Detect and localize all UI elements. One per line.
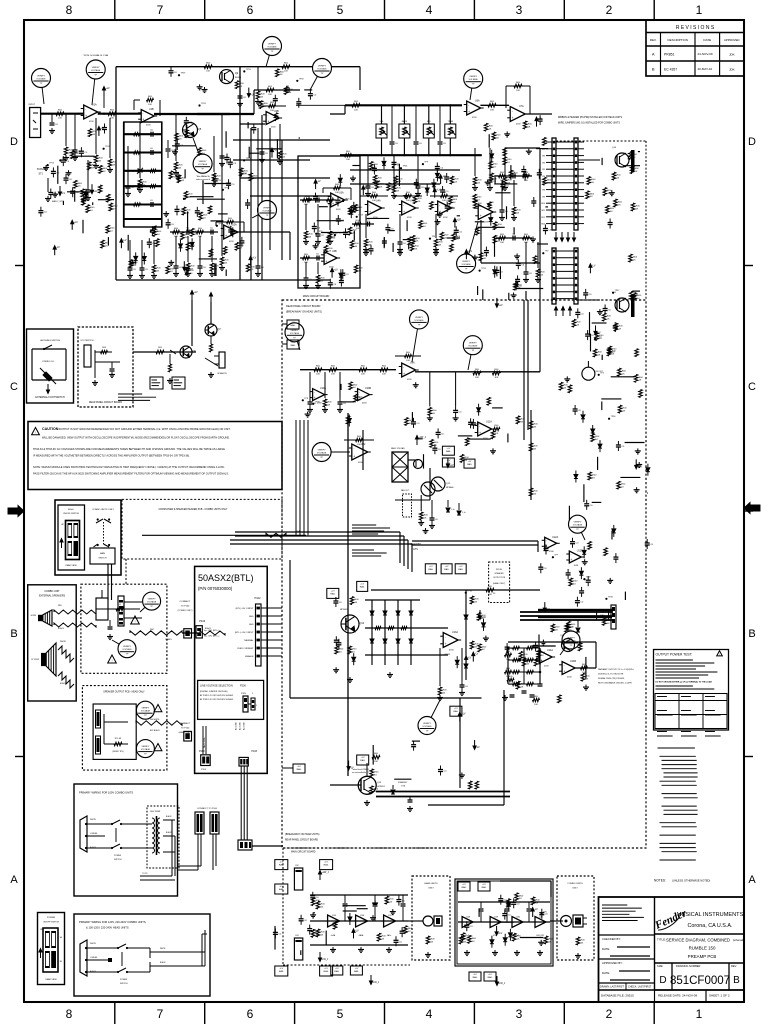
resistor R89 [354,204,358,212]
svg-text:-: - [403,203,404,207]
svg-text:-LV: -LV [592,264,596,267]
svg-text:(BREAKAWAY ON HEAD UNITS): (BREAKAWAY ON HEAD UNITS) [286,311,322,314]
svg-text:+LV: +LV [100,127,105,130]
svg-text:Corona, CA U.S.A.: Corona, CA U.S.A. [688,923,733,929]
svg-text:-LV: -LV [534,908,538,911]
svg-text:JDK: JDK [729,68,735,72]
balloon TP relay [427,700,440,726]
capacitor C45 [48,192,53,194]
capacitor C24 [64,177,69,179]
power arrow [440,178,442,184]
capacitor C14 [299,918,304,920]
wire [317,220,344,222]
svg-text:-LW_J: -LW_J [322,958,330,961]
svg-text:OUTPUT POWER TEST:: OUTPUT POWER TEST: [656,653,693,657]
right mid cluster [473,371,481,375]
wire [406,220,408,231]
resistor R60 [259,101,263,109]
amp row 1 caps [343,903,348,905]
resistor R53 [635,349,639,357]
capacitor C43 [308,93,313,95]
svg-text:50ASX2(BTL): 50ASX2(BTL) [198,573,254,583]
resistor R58 [182,207,186,215]
svg-text:EXTERNAL SPEAKERS: EXTERNAL SPEAKERS [39,595,65,598]
svg-text:SERVICE DIAGRAM, COMBINED: SERVICE DIAGRAM, COMBINED [666,938,730,943]
capacitor C35 [334,639,339,641]
svg-text:CONNECT: CONNECT [180,723,191,725]
U6A out [480,104,509,106]
capacitor C70 [468,421,473,423]
capacitor C66 [575,311,580,313]
ground [513,293,515,296]
ground [487,180,489,183]
svg-text:MPSA13: MPSA13 [340,608,349,611]
wire [403,239,412,241]
resistor R83 [249,173,253,181]
mid band drops [309,372,311,398]
svg-text:2: 2 [606,3,613,17]
resistor R85 [477,612,481,620]
resistor R82 [408,237,412,245]
capacitor C30 [613,325,618,327]
svg-text:BLACK: BLACK [166,815,172,818]
wire [202,180,204,204]
svg-text:10K: 10K [494,377,498,379]
resistor R58 [375,181,379,189]
svg-text:U7A: U7A [519,105,524,108]
eq outer box left [115,67,117,280]
wire [611,376,635,378]
svg-text:VOLTAGE: VOLTAGE [91,69,101,72]
mute transistor [205,324,217,336]
node [222,189,224,191]
capacitor C93 [61,159,66,161]
svg-text:+LV: +LV [324,968,328,970]
svg-text:U11A: U11A [486,421,492,424]
amp row 2 grounds [466,950,468,953]
svg-text:RAIL: RAIL [279,888,285,891]
capacitor C29 [372,168,377,170]
node [542,252,544,254]
primary wiring 100V box [74,784,178,896]
rgl on-off switch inner box [58,505,85,570]
capacitor C76 [436,431,441,433]
capacitor C33 [484,250,489,252]
capacitor C55 [230,230,235,232]
capacitor C28 [500,184,505,186]
wire [638,151,640,153]
svg-text:STEREO 1/4: STEREO 1/4 [42,361,54,363]
50ASX2 module box [195,566,268,773]
resistor R68 [311,898,315,906]
svg-text:+LV: +LV [291,342,295,344]
ground [308,196,310,199]
resistor R87 [514,282,518,290]
combo speaker plug [561,916,572,927]
svg-text:W11: W11 [541,210,545,212]
svg-text:W1: W1 [542,142,545,144]
resistor R51 [186,243,190,251]
svg-text:8: 8 [66,3,73,17]
svg-text:GND: GND [249,616,254,618]
capacitor C55 [336,199,341,201]
svg-text:+LV: +LV [106,87,111,90]
channel pots [380,104,382,106]
resistor R63 [468,781,472,789]
lower right mid cluster [496,175,532,177]
resistor R5 drop [109,118,111,158]
rear panel circuit board box [78,327,133,407]
diode matrix [371,600,373,665]
svg-text:-: - [142,111,143,115]
resistor R45 [246,264,250,272]
mid stage op-amp U2A [224,225,238,239]
supply bus lines [520,611,613,613]
svg-text:LINE VOLTAGE SELECTION:: LINE VOLTAGE SELECTION: [200,685,234,688]
resistor R60 [385,896,389,904]
cap C3 drop [87,160,89,186]
svg-text:*WITH 1k SIGNAL IN 1 TAB: *WITH 1k SIGNAL IN 1 TAB [83,54,109,57]
mixer drops [367,155,369,182]
svg-text:P102: P102 [255,596,262,600]
diode D9 [489,218,493,222]
svg-text:+: + [445,642,447,646]
ground [405,193,407,196]
amp row 1 triangles [328,915,340,927]
wire [497,921,514,923]
svg-text:RIBBON & HEADER (P9-P99) INSTA: RIBBON & HEADER (P9-P99) INSTALLED FOR H… [558,116,622,119]
svg-text:ONLY: ONLY [572,888,578,890]
node [594,338,596,340]
op-amp U10A [313,389,325,401]
capacitor C84 [505,646,510,648]
wire [250,152,260,154]
resistor R83 [419,221,423,229]
capacitor C58 [414,182,419,184]
ground [437,219,439,222]
wire [72,155,95,157]
opto diodes [446,508,450,512]
svg-text:8: 8 [66,1007,73,1021]
node [312,403,314,405]
svg-text:THERMAL: THERMAL [244,639,255,642]
opto transistor Q12 [431,477,445,491]
resistor R54 [558,695,562,703]
wire [127,235,129,251]
capacitor C41 [440,189,445,191]
diode D3 [646,468,650,472]
op-amp U3A [331,193,345,207]
zone column ticks bottom [114,1002,116,1024]
svg-text:+LV: +LV [462,884,466,886]
svg-text:ONLY: ONLY [428,888,434,890]
svg-text:VERIFY: VERIFY [462,261,470,263]
svg-text:10K: 10K [475,377,479,379]
resistor R90 [223,247,227,255]
svg-text:P200: P200 [201,769,207,771]
diode D22 [612,529,616,533]
wire [585,657,587,679]
relay resistors [335,646,339,654]
capacitor C97 [226,182,231,184]
wire [494,236,496,257]
svg-text:+: + [403,210,405,214]
resistor R66 [208,206,212,214]
svg-text:SPEAKER OUTPUT PCB - HEAD ONLY: SPEAKER OUTPUT PCB - HEAD ONLY [103,691,145,694]
svg-text:EARLY_ST1: EARLY_ST1 [52,200,64,203]
svg-text:VOLTAGE: VOLTAGE [462,263,472,266]
wires from P5 [252,845,283,847]
balloon crossover 1 [140,601,152,612]
U4A gnd [365,214,367,238]
zone row ticks right [744,265,753,267]
wire [601,158,603,165]
node [183,198,185,200]
resistor R58 [156,239,160,247]
svg-text:RAIL: RAIL [330,592,336,595]
resistor R44 [617,481,621,489]
resistor R48 [569,578,573,586]
svg-text:+LV: +LV [331,590,335,592]
wire [494,175,496,184]
resistor R30 [352,104,360,108]
svg-text:VERIFY: VERIFY [415,317,423,319]
power arrow [120,242,122,248]
svg-text:APPROVED BY:: APPROVED BY: [602,961,623,965]
caution note box [28,422,282,490]
svg-text:10K: 10K [406,360,410,362]
resistor R95 [373,175,377,183]
standby dashed box [403,494,412,517]
svg-text:BK2 BLACK: BK2 BLACK [150,729,161,732]
resistor R54 [586,191,590,199]
svg-text:VERIFY: VERIFY [141,746,149,748]
power arrow [71,224,73,230]
240V output wires [150,951,205,953]
capacitor C65 [616,444,621,446]
svg-text:R E V I S I O N S: R E V I S I O N S [676,25,715,31]
svg-text:FOOTSWITCH: FOOTSWITCH [81,340,94,342]
U2A fb loop [216,221,244,223]
balloon TP top2 [310,68,322,90]
wire [601,402,603,411]
fan wires [408,459,418,461]
mosfet Q11 [615,298,629,312]
wire row2 to combo [550,920,563,922]
svg-text:HORN: HORN [31,615,37,617]
svg-text:-: - [439,203,440,207]
pot inter caps [390,141,395,143]
svg-text:10" SPKR: 10" SPKR [31,659,40,661]
power arrow [544,602,546,608]
wire [478,226,505,228]
svg-text:+: + [468,110,470,114]
resistor R54 [405,418,409,426]
power arrow [183,261,185,267]
resistor R67 [639,390,643,398]
svg-text:(P/N 0076030000): (P/N 0076030000) [198,586,233,591]
svg-text:P200: P200 [199,750,205,753]
resistor R64 [588,472,592,480]
balloon TP PA [560,640,571,655]
wire [494,183,517,185]
wire [225,131,227,147]
svg-text:REAR PANEL CIRCUIT BOARD: REAR PANEL CIRCUIT BOARD [89,401,122,404]
balloon TP7 [466,222,478,264]
svg-text:U6A: U6A [475,100,480,103]
op-amp U12B [569,551,581,563]
svg-text:RAIL: RAIL [482,886,488,889]
power arrow [474,740,476,746]
pa long vertical wire [503,690,505,805]
wire [389,230,395,232]
svg-text:U13A: U13A [452,631,458,634]
100V secondary wires [163,819,175,821]
svg-text:450KW (0.5-7% 7/8) NOTE:: 450KW (0.5-7% 7/8) NOTE: [598,674,624,676]
feedback R6 [134,99,140,101]
resistor R60 [99,165,103,173]
svg-text:20-MAY-10: 20-MAY-10 [698,67,713,71]
resistor R87 [515,893,519,901]
svg-text:-LV: -LV [350,767,354,770]
wire [184,169,186,178]
svg-text:-: - [445,635,446,639]
svg-text:U12A: U12A [552,536,558,539]
svg-text:U9A: U9A [410,362,415,365]
svg-text:WHITE: WHITE [60,641,67,643]
svg-text:BU406: BU406 [235,77,242,79]
main circuit board dashed outline [282,300,646,848]
capacitor C63 [573,408,578,410]
chain into U2A [170,231,218,233]
svg-text:2: 2 [606,1007,613,1021]
capacitor C77 [225,157,230,159]
node [198,104,200,106]
svg-text:EXTERNAL FOOTSWITCH: EXTERNAL FOOTSWITCH [35,396,65,399]
wire [520,937,544,939]
capacitor C34 [585,333,590,335]
wire [632,290,640,292]
resistor R1 [56,112,64,116]
capacitor C41 [392,161,397,163]
resistor R92 [543,137,547,145]
svg-text:10K: 10K [110,118,114,120]
op-amp U7A [510,107,525,122]
resistor drop R24 [257,128,259,262]
svg-text:COMBO UNITS: COMBO UNITS [567,883,583,885]
wire [468,438,491,440]
power arrow [271,152,273,158]
svg-text:(COMBO ONLY): (COMBO ONLY) [178,610,193,612]
resistor R72 [509,170,513,178]
footswitch buffer transistor [133,351,196,353]
wire [625,442,645,444]
resistor R43 [533,256,537,264]
wire [477,286,479,295]
svg-text:REAR VIEW: REAR VIEW [65,564,76,567]
capacitor C74 [333,600,338,602]
svg-text:-LV: -LV [597,331,601,334]
amp row 2 resistors [459,936,463,944]
svg-text:+: + [225,234,227,238]
resistor R79 [488,202,492,210]
power arrow [447,458,449,464]
power arrow [465,253,467,259]
svg-text:VERIFY: VERIFY [141,708,149,710]
op-amp U22 mute driver [352,444,368,460]
svg-text:10K: 10K [58,118,62,120]
cap row under eq [129,240,131,264]
power arrow [362,189,364,195]
pa black junctions [523,659,526,662]
resistor R44 [348,227,352,235]
svg-text:4: 4 [426,1007,433,1021]
amp row 2 label boxes [458,882,470,891]
resistor R40 [88,129,92,137]
svg-text:-LV: -LV [123,239,127,242]
svg-text:1,1u: 1,1u [462,512,466,514]
crossover speaker header pcb dashed box [122,499,282,559]
resistor R40 [516,416,520,424]
svg-text:4A5A: 4A5A [359,934,364,937]
pa op-amp U14A [539,651,552,664]
wire [423,454,425,468]
resistor R7 drop [139,122,141,178]
resistor R86 [604,548,608,556]
bottom mid arrows [370,975,372,981]
resistor R90 [492,132,496,140]
svg-text:4: 4 [426,3,433,17]
ground [132,260,134,263]
wire [398,164,400,186]
capacitor C31 [411,421,416,423]
balloon TP12 [468,345,473,370]
svg-text:(INSTALL JUMPER ON FUSE): (INSTALL JUMPER ON FUSE) [200,690,228,693]
svg-text:(BTL-) CH 1 INPUT: (BTL-) CH 1 INPUT [235,608,254,610]
svg-text:-: - [314,390,315,394]
node [240,174,242,176]
svg-text:OVER CURRENT: OVER CURRENT [237,648,254,650]
svg-text:U14B: U14B [570,660,576,663]
svg-text:HEAD UNITS: HEAD UNITS [424,882,438,885]
node [598,374,600,376]
diode D5 [455,660,459,664]
resistor R54 [460,454,464,462]
node [392,166,394,168]
resistor R45 [465,438,469,446]
wire [274,926,276,950]
wire [510,165,512,179]
capacitor C13 [79,150,84,152]
svg-text:VERIFY: VERIFY [199,161,207,163]
svg-text:+LV: +LV [447,460,451,462]
supply labels box [597,610,609,620]
capacitor C2 drop [74,114,76,146]
op-amp U9A [402,363,416,377]
resistor R3 [108,112,116,116]
resistor R68 [74,180,78,188]
fan transistor Q16 [414,460,423,469]
svg-text:-LV: -LV [56,246,60,249]
resistor R62 [512,933,516,941]
svg-text:(VERIFY R75): (VERIFY R75) [112,751,124,753]
svg-text:W4: W4 [542,162,545,164]
diode D18 [338,178,342,182]
bottom arrows [319,874,321,880]
capacitor C89 [454,229,459,231]
svg-text:R75 4Ω: R75 4Ω [115,738,122,740]
resistor R91 [350,240,354,248]
